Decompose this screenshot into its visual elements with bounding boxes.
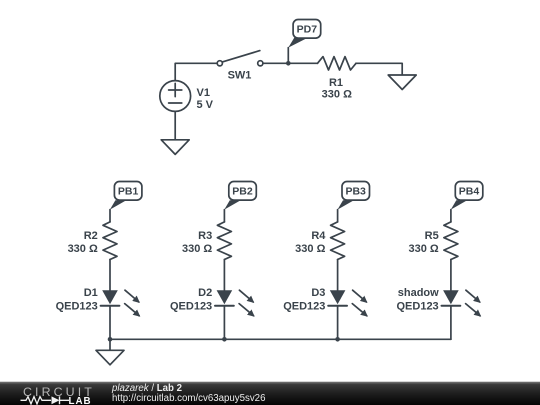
resistor R5 bbox=[408, 222, 457, 260]
svg-text:R1: R1 bbox=[329, 77, 343, 89]
svg-text:QED123: QED123 bbox=[170, 301, 212, 313]
ground (bottom) bbox=[96, 350, 124, 365]
wire R2 to D1 bbox=[109, 260, 111, 291]
svg-text:5 V: 5 V bbox=[197, 99, 214, 111]
switch SW1 bbox=[217, 51, 263, 82]
wire from R1 to right ground bbox=[356, 63, 402, 75]
svg-text:PB3: PB3 bbox=[345, 186, 366, 198]
CircuitLab logo bbox=[21, 385, 95, 405]
wire R3 to D2 bbox=[223, 260, 225, 291]
wire D3 to bus bbox=[337, 307, 339, 340]
junction dot branch 1 bbox=[108, 337, 113, 342]
svg-text:R2: R2 bbox=[84, 230, 98, 242]
flag PB1 bbox=[110, 182, 142, 222]
svg-text:330 Ω: 330 Ω bbox=[322, 89, 352, 101]
svg-text:QED123: QED123 bbox=[283, 301, 325, 313]
resistor R1 bbox=[318, 57, 357, 101]
svg-text:R3: R3 bbox=[198, 230, 212, 242]
flag PB4 bbox=[451, 182, 483, 222]
ground (below V1) bbox=[161, 140, 189, 155]
svg-text:plazarek / Lab 2: plazarek / Lab 2 bbox=[111, 383, 182, 394]
resistor R4 bbox=[295, 222, 344, 260]
svg-text:330 Ω: 330 Ω bbox=[182, 243, 212, 255]
wire shadow LED to bus bbox=[450, 307, 452, 340]
svg-text:330 Ω: 330 Ω bbox=[68, 243, 98, 255]
footer bar bbox=[0, 382, 540, 405]
svg-text:LAB: LAB bbox=[69, 396, 92, 405]
svg-text:330 Ω: 330 Ω bbox=[295, 243, 325, 255]
resistor R3 bbox=[182, 222, 231, 260]
junction dot branch 3 bbox=[335, 337, 340, 342]
bottom bus wire bbox=[110, 338, 451, 340]
svg-text:D1: D1 bbox=[84, 287, 98, 299]
flag PB3 bbox=[338, 182, 370, 222]
ground (right of R1) bbox=[388, 75, 416, 90]
svg-text:R5: R5 bbox=[425, 230, 439, 242]
wire from V1 bottom to ground bbox=[174, 111, 176, 139]
svg-text:http://circuitlab.com/cv63apuy: http://circuitlab.com/cv63apuy5sv26 bbox=[112, 393, 265, 404]
resistor R2 bbox=[68, 222, 117, 260]
svg-text:QED123: QED123 bbox=[396, 301, 438, 313]
flag PD7 bbox=[288, 20, 320, 64]
svg-text:shadow: shadow bbox=[398, 287, 439, 299]
node junction dot at PD7 tap bbox=[286, 61, 291, 66]
svg-text:330 Ω: 330 Ω bbox=[408, 243, 438, 255]
junction dot branch 2 bbox=[222, 337, 227, 342]
LED D3 bbox=[283, 287, 367, 316]
voltage source V1 bbox=[160, 81, 214, 112]
svg-text:PB4: PB4 bbox=[459, 186, 480, 198]
svg-text:D3: D3 bbox=[311, 287, 325, 299]
svg-text:SW1: SW1 bbox=[228, 70, 252, 82]
wire bus to bottom ground bbox=[109, 339, 111, 350]
flag PB2 bbox=[224, 182, 256, 222]
LED shadow QED123 bbox=[396, 287, 480, 316]
svg-text:PD7: PD7 bbox=[297, 24, 318, 36]
wire R4 to D3 bbox=[337, 260, 339, 291]
wire from switch to R1 bbox=[263, 62, 318, 64]
svg-text:V1: V1 bbox=[197, 87, 210, 99]
wire R5 to shadow LED bbox=[450, 260, 452, 291]
svg-text:R4: R4 bbox=[311, 230, 326, 242]
LED D2 bbox=[170, 287, 254, 316]
svg-text:PB1: PB1 bbox=[118, 186, 139, 198]
svg-text:PB2: PB2 bbox=[232, 186, 253, 198]
wire D2 to bus bbox=[223, 307, 225, 340]
LED D1 bbox=[56, 287, 140, 316]
svg-text:D2: D2 bbox=[198, 287, 212, 299]
svg-text:QED123: QED123 bbox=[56, 301, 98, 313]
wire from V1 top to switch bbox=[175, 63, 217, 80]
wire D1 to bus bbox=[109, 307, 111, 340]
